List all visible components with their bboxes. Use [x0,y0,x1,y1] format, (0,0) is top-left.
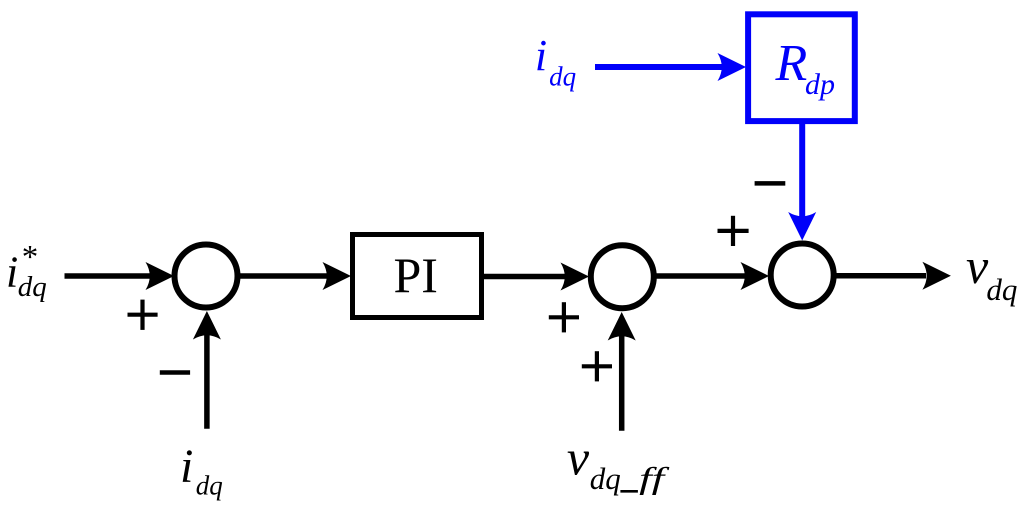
svg-text:PI: PI [394,247,438,303]
plus sign at S1 left input [128,300,158,330]
node i_dq feedback label [180,440,223,500]
svg-text:v: v [567,430,590,486]
summing junction S1 [175,245,238,308]
wire blue i_dq into R_dp block [595,64,722,70]
svg-text:dq: dq [18,271,47,303]
wire S3 to output v_dq [836,273,926,279]
node i*_dq input label [6,240,47,304]
svg-text:dq: dq [590,461,621,496]
svg-text:i: i [535,31,547,80]
block R_dp (active damping) [748,14,855,121]
wire S1 to PI block [240,273,327,279]
svg-text:dq: dq [549,61,576,91]
svg-text:ff: ff [639,460,670,495]
svg-text:i: i [180,440,193,493]
svg-text:R: R [775,35,808,92]
svg-text:dp: dp [805,68,835,101]
wire feedback i_dq up into S1 [204,334,210,429]
wire input to summing junction S1 [65,273,151,279]
svg-text:dq: dq [986,272,1017,307]
node v_dq output label [966,238,1017,307]
wire R_dp down into S3 [799,124,805,217]
plus sign at S2 left input [549,302,579,332]
minus sign at S3 top input [755,181,786,186]
wire PI to summing junction S2 [484,274,565,280]
summing junction S3 [771,244,834,307]
svg-text:dq: dq [196,470,223,500]
plus sign at S3 left input [718,216,749,246]
plus sign at S2 bottom input [582,351,612,381]
PI block [353,235,482,318]
wire S2 to summing junction S3 [656,273,745,279]
summing junction S2 [591,245,654,308]
svg-text:i: i [6,248,18,297]
node v_dq_ff label [567,430,671,497]
wire feedforward v_dq_ff up into S2 [619,335,625,431]
node i_dq damping input label (blue) [535,31,576,91]
minus sign at S1 bottom input [160,370,190,375]
